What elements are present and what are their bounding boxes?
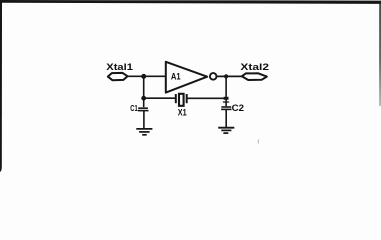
terminal Xtal1 [108, 73, 128, 80]
junction lower-left [141, 96, 146, 101]
wire C1 to ground [143, 111, 145, 129]
op-amp / inverter A1 [166, 62, 207, 93]
wire lower branch right segment [187, 97, 226, 99]
junction node B (output) [224, 74, 228, 78]
ground (right) [218, 128, 234, 133]
ground (left) [136, 129, 152, 135]
page right border [379, 2, 381, 106]
junction lower-right tee [224, 97, 229, 100]
wire Xtal1 to inverter input [128, 75, 166, 77]
terminal Xtal2 [242, 73, 267, 80]
crystal X1 body [179, 94, 184, 106]
svg-text:A1: A1 [171, 71, 181, 81]
capacitor C1 bottom plate [138, 110, 149, 112]
scan speck [258, 140, 259, 144]
svg-text:X1: X1 [178, 107, 187, 118]
page left border [0, 0, 2, 172]
wire bubble to Xtal2 [217, 75, 243, 77]
svg-text:Xtal2: Xtal2 [240, 62, 269, 73]
page top border [0, 0, 381, 4]
wire vertical left branch [143, 76, 145, 107]
wire lower branch left segment [144, 97, 176, 99]
svg-text:C2: C2 [232, 103, 244, 113]
inverter output bubble [210, 73, 217, 80]
crystal X1 right plate [186, 94, 188, 103]
capacitor C2 top plate [221, 106, 231, 108]
wire vertical right branch [225, 76, 227, 106]
capacitor C1 top plate [138, 107, 148, 109]
junction node A (input) [141, 74, 146, 79]
wire C2 to ground [225, 109, 227, 127]
crystal X1 left plate [175, 94, 177, 103]
small tick on C2 lead [223, 101, 229, 103]
svg-text:C1: C1 [130, 103, 138, 113]
capacitor C2 bottom plate [221, 108, 231, 110]
svg-text:Xtal1: Xtal1 [106, 62, 133, 73]
